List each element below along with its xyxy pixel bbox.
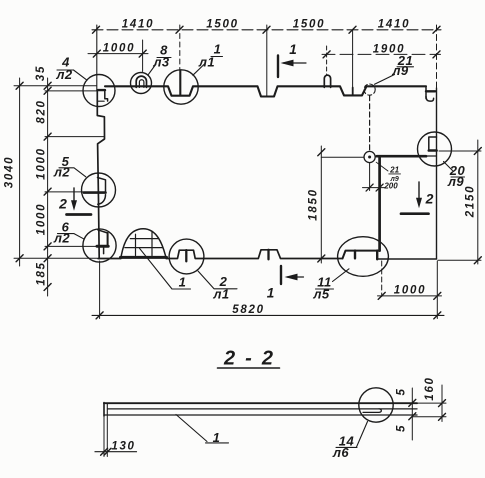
svg-text:160: 160 [424, 376, 436, 400]
leader 5/L2 [59, 168, 86, 177]
section mark 1 bottom [280, 266, 282, 284]
mini label leader [376, 162, 388, 171]
extension down for 130 [104, 415, 107, 457]
leader 11/L5 [316, 269, 350, 289]
extension line x=267 [266, 25, 268, 96]
leader 1 hump [140, 248, 191, 289]
svg-text:1500: 1500 [206, 19, 238, 31]
thin extension line to 1850 [321, 156, 364, 158]
left chain dimension line [47, 78, 49, 296]
panel top edge [105, 86, 426, 96]
dimension 130 [95, 451, 137, 453]
section mark 1 top [277, 56, 279, 78]
leader 1 section [176, 415, 229, 443]
svg-text:5: 5 [396, 424, 408, 432]
thick boundary horizontal [377, 155, 426, 158]
dimension 1000 top-left [88, 53, 148, 55]
left edge detail 6/L2 diagonal [98, 230, 108, 233]
lifting loop L3 outer [136, 76, 146, 87]
extension from small circle down [369, 163, 371, 191]
svg-text:л3: л3 [152, 55, 170, 70]
panel right edge [436, 88, 438, 259]
mini dimension 200 line [363, 187, 386, 189]
thin continuation to right edge [426, 155, 437, 157]
svg-text:л5: л5 [312, 287, 330, 302]
extension line right edge dashed [436, 25, 438, 88]
recess 3 stem thick part [352, 88, 354, 96]
callout circle 14/L6 [359, 388, 393, 422]
leader 21/L9 [375, 67, 414, 85]
svg-text:1410: 1410 [122, 19, 154, 31]
extension lines 2150 [439, 150, 481, 152]
detail 5/L2 thick bar [84, 191, 106, 194]
svg-text:л9: л9 [447, 174, 465, 189]
leader 6/L2 [58, 234, 85, 240]
svg-text:3040: 3040 [4, 156, 16, 188]
callout circle 1/L1 [164, 70, 198, 104]
svg-text:1500: 1500 [293, 19, 325, 31]
top-left corner notch bar [98, 89, 106, 91]
lifting loop 2 [324, 75, 330, 87]
callout ellipse 11/L5 [338, 237, 389, 277]
svg-text:л6: л6 [332, 445, 350, 460]
svg-text:л2: л2 [55, 67, 73, 82]
lifting loop L3 inner [139, 80, 144, 88]
svg-text:1000: 1000 [394, 285, 426, 297]
hidden loop dashed circle 21/L9 [364, 84, 375, 95]
left outer dimension 3040 [19, 78, 21, 266]
extension line x=352 [352, 30, 354, 88]
dimension 160 [441, 385, 443, 422]
L5 recess stud 1 [354, 251, 356, 259]
thick boundary vertical [378, 156, 381, 250]
L5 recess top line [343, 251, 380, 259]
svg-text:2: 2 [425, 191, 434, 207]
svg-text:л2: л2 [53, 231, 71, 246]
dimension 1850 vertical [320, 146, 322, 263]
slab inner line [108, 408, 418, 410]
tick marks top dimension [93, 26, 441, 33]
extension lines 5820 [99, 261, 101, 319]
right edge detail 20/L9 [429, 137, 437, 149]
detail 20/L9 thick bar [429, 149, 437, 152]
svg-text:5820: 5820 [232, 304, 264, 316]
small loop circle with dot [364, 151, 375, 162]
extension line x=180 dashed [179, 25, 181, 70]
svg-text:1000: 1000 [103, 43, 135, 55]
dimension 1900 top-right [322, 53, 441, 55]
svg-text:1: 1 [213, 430, 221, 445]
dimension texts [4, 19, 477, 317]
leader 8/L3 [148, 58, 171, 75]
leader 14/L6 [336, 422, 368, 448]
svg-text:1000: 1000 [36, 147, 48, 179]
svg-text:35: 35 [35, 65, 47, 81]
dimension 2150 vertical [477, 140, 479, 264]
leader 1/L1 [193, 57, 223, 76]
top-left corner detail lines [105, 90, 108, 101]
svg-text:л1: л1 [212, 287, 229, 302]
panel bottom edge with recesses [166, 250, 342, 259]
callout circle 6/L2 [83, 229, 116, 262]
callout circle 5/L2 [82, 173, 116, 207]
section 2-2 texts [111, 348, 436, 461]
extension to loop 2 dashed [326, 46, 328, 75]
callout circle 20/L9 [418, 132, 452, 166]
slab top line [104, 402, 417, 404]
L5 recess stud 2 [376, 251, 378, 260]
dimension 5 lines [411, 388, 413, 440]
svg-text:5: 5 [396, 387, 408, 395]
hump inner hatch lines [125, 232, 163, 256]
svg-text:21: 21 [389, 166, 399, 175]
section 2-2 view [95, 368, 446, 457]
dimension 5820 bottom [92, 314, 444, 316]
panel bottom edge right part [377, 258, 436, 260]
svg-text:1: 1 [289, 42, 297, 57]
extension line left corner [96, 25, 98, 90]
extension to loop L3 [142, 40, 144, 72]
callout circle 4/L2 [83, 75, 115, 107]
svg-text:130: 130 [111, 441, 135, 453]
callout labels [53, 42, 466, 302]
hook detail 14/L6 [363, 409, 381, 413]
hidden edge dashed line [369, 96, 371, 151]
recess L1 top stem [179, 71, 181, 96]
svg-text:л1: л1 [198, 55, 215, 70]
svg-text:1: 1 [179, 275, 187, 290]
callout circle 8/L3 [131, 73, 152, 94]
panel left edge [97, 90, 104, 258]
top-right corner step [425, 86, 427, 98]
section title underline [218, 367, 280, 369]
detail 6/L2 stub [103, 248, 105, 254]
slab left end [103, 403, 105, 416]
svg-text:л9: л9 [389, 176, 398, 183]
detail 6/L2 thick bar [97, 245, 108, 248]
svg-text:л9: л9 [391, 63, 409, 78]
section mark 2 right [418, 182, 420, 203]
svg-text:1410: 1410 [378, 19, 410, 31]
leader 20/L9 [444, 162, 465, 178]
svg-text:1000: 1000 [36, 203, 48, 235]
hump arc on bottom edge [121, 229, 166, 259]
svg-text:2 - 2: 2 - 2 [223, 348, 276, 370]
svg-text:1850: 1850 [308, 188, 320, 220]
panel bottom edge left part [98, 258, 121, 260]
leader 2/L1 [198, 271, 237, 289]
svg-text:820: 820 [36, 99, 48, 123]
slab bottom line [104, 414, 417, 416]
top-right corner hook [426, 97, 434, 102]
recess L1 bottom stem [185, 250, 187, 261]
svg-text:185: 185 [36, 261, 48, 285]
section mark 2 left [73, 188, 75, 206]
svg-text:1: 1 [267, 286, 275, 301]
svg-text:2150: 2150 [465, 185, 477, 218]
horizontal extension lines left [14, 85, 97, 87]
left edge detail 5/L2 notch [98, 178, 106, 193]
top dimension line 1410/1500/1500/1410 [92, 29, 441, 31]
hump thick base [121, 256, 167, 259]
detail 5/L2 lower curve [98, 195, 106, 205]
svg-text:2: 2 [58, 196, 67, 212]
svg-text:л2: л2 [53, 164, 71, 179]
detail 6/L2 vertical [107, 233, 109, 245]
leader 4/L2 [57, 70, 87, 80]
chain tick marks [44, 82, 51, 290]
top-right corner thick stub [426, 90, 435, 92]
callout circle 2/L1 [169, 239, 204, 274]
dimension 1000 bottom right [378, 295, 442, 297]
bottom middle recess stem [267, 250, 269, 259]
